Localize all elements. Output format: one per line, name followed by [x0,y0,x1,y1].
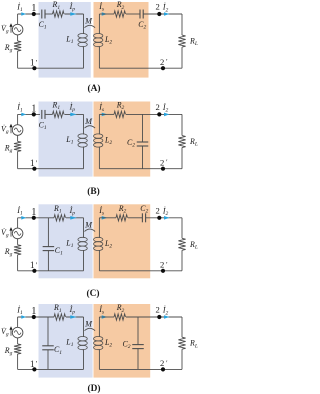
svg-text:İ2: İ2 [162,207,169,218]
capacitor C1 shunt (D) [47,317,49,346]
voltage source Vg (C) [17,218,19,228]
capacitor C2 shunt (B) [142,114,144,142]
capacitor C1 series (B) [41,110,43,119]
secondary shaded region (A) [94,2,149,78]
bottom wire secondary (A) [99,67,182,69]
load resistor RL (A) [181,14,183,35]
wire: top left (C) [18,217,54,219]
svg-text:2: 2 [156,205,160,215]
node 2 (C) [157,216,161,220]
svg-text:İ1: İ1 [16,103,23,114]
svg-text:2: 2 [156,2,160,12]
svg-text:′: ′ [36,58,38,67]
wire R1-L1 (C) [66,217,84,219]
svg-text:M: M [84,117,93,126]
svg-text:1: 1 [31,306,36,317]
svg-text:1: 1 [31,104,36,115]
node 1 (C) [32,216,36,220]
load resistor RL (D) [181,317,183,337]
svg-text:M: M [84,17,93,26]
wire R2-C2 (C) [128,217,142,219]
node 2 (D) [157,315,161,319]
node 2 (B) [157,112,161,116]
voltage source Vg (D) [17,317,19,327]
node 1&#39; (D) [32,367,36,371]
primary shaded region (D) [39,304,93,378]
svg-text:RL: RL [189,240,198,251]
wire R2-C2 (A) [126,13,140,15]
node 2&#39; (B) [161,167,165,171]
svg-text:2: 2 [160,158,164,168]
secondary shaded region (B) [94,102,151,177]
bottom wire primary (B) [18,168,84,170]
resistor R1 (C) [54,215,65,221]
inductor L2 (D) [98,317,100,337]
svg-text:V̇g: V̇g [1,228,9,239]
source polarity arrow (C) [10,230,12,237]
svg-text:M: M [84,320,93,329]
svg-text:Rg: Rg [4,43,13,54]
svg-text:(C): (C) [86,288,99,299]
svg-text:Rg: Rg [4,247,13,258]
resistor R2 (B) [114,111,125,117]
svg-text:İ1: İ1 [16,305,23,316]
svg-text:′: ′ [36,359,38,368]
resistor R2 (D) [114,314,125,320]
node 2&#39; (D) [161,367,165,371]
svg-text:İ1: İ1 [16,2,23,13]
svg-text:V̇g: V̇g [1,327,9,338]
bottom wire secondary (D) [99,368,182,370]
svg-text:RL: RL [189,137,198,148]
wire C1-R1 (A) [45,13,53,15]
svg-text:(A): (A) [87,83,100,94]
capacitor C1 shunt (C) [47,218,49,247]
node 1&#39; (C) [32,269,36,273]
resistor R2 (A) [114,11,125,17]
wire C2-node2 (C) [146,217,182,219]
node 2&#39; (C) [161,269,165,273]
inductor L1 (B) [83,114,85,134]
wire R1-L1 (B) [65,113,84,115]
svg-text:2: 2 [156,305,160,315]
wire: top left (D) [18,316,54,318]
source polarity arrow (D) [10,329,12,336]
svg-text:1: 1 [31,3,36,14]
svg-text:1: 1 [31,207,36,218]
svg-text:1: 1 [30,359,35,369]
svg-text:1: 1 [30,260,35,270]
secondary shaded region (C) [94,204,151,278]
svg-text:′: ′ [166,158,168,167]
source polarity arrow (B) [10,127,12,134]
svg-text:İ2: İ2 [162,103,169,114]
primary shaded region (C) [39,204,93,278]
inductor L1 (C) [83,218,85,238]
resistor R2 (C) [116,215,127,221]
node 1&#39; (A) [32,66,36,70]
inductor L1 (A) [83,14,85,34]
source polarity arrow (A) [10,26,12,33]
inductor L2 (C) [98,218,100,238]
capacitor C2 series (A) [139,10,141,19]
wire R2-node2 (B) [126,113,182,115]
resistor R1 (B) [53,111,64,117]
capacitor C2 shunt (D) [137,317,139,345]
svg-text:İ2: İ2 [162,306,169,317]
node 1 (B) [32,112,36,116]
svg-text:RL: RL [189,37,198,48]
svg-text:M: M [84,220,93,229]
svg-text:V̇g: V̇g [1,24,9,35]
bottom wire primary (A) [18,67,84,69]
bottom wire primary (D) [18,368,84,370]
wire R2-node2 (D) [126,316,182,318]
svg-text:Rg: Rg [4,143,13,154]
node 1 (A) [32,12,36,16]
wire C1-R1 (B) [45,113,53,115]
wire L2-R2 (D) [99,316,114,318]
resistor Rg (A) [17,35,19,41]
inductor L2 (B) [98,114,100,134]
wire L2-R2 (A) [99,13,114,15]
svg-text:V̇g: V̇g [1,124,9,135]
wire L2-R2 (B) [99,113,114,115]
svg-text:2: 2 [160,358,164,368]
capacitor C1 series (A) [41,10,43,19]
node 2 (A) [157,12,161,16]
svg-text:(B): (B) [87,186,100,197]
capacitor C2 series (C) [141,213,143,222]
secondary shaded region (D) [94,304,151,378]
bottom wire secondary (C) [99,270,182,272]
wire R1-L1 (D) [66,316,84,318]
bottom wire secondary (B) [99,168,182,170]
load resistor RL (B) [181,114,183,135]
wire C2-node2 (A) [143,13,182,15]
voltage source Vg (B) [17,114,19,124]
wire: top left (B) [18,113,40,115]
node 1 (D) [32,315,36,319]
svg-text:′: ′ [36,158,38,167]
svg-text:′: ′ [166,57,168,66]
svg-text:1: 1 [30,58,35,68]
svg-text:Rg: Rg [4,346,13,357]
svg-text:İ1: İ1 [16,206,23,217]
wire R1-L1 (A) [65,13,84,15]
resistor Rg (B) [17,135,19,141]
svg-text:(D): (D) [87,383,100,394]
primary shaded region (A) [39,2,91,78]
node 1&#39; (B) [32,167,36,171]
svg-text:İ2: İ2 [162,3,169,14]
wire L2-R2 (C) [99,217,116,219]
bottom wire primary (C) [18,270,84,272]
resistor R1 (A) [53,11,64,17]
inductor L2 (A) [98,14,100,34]
voltage source Vg (A) [17,14,19,24]
resistor Rg (D) [17,338,19,344]
inductor L1 (D) [83,317,85,337]
svg-text:′: ′ [36,260,38,269]
node 2&#39; (A) [161,66,165,70]
load resistor RL (C) [181,218,183,239]
svg-text:′: ′ [166,358,168,367]
svg-text:2: 2 [160,57,164,67]
svg-text:2: 2 [160,260,164,270]
svg-text:2: 2 [156,102,160,112]
primary shaded region (B) [39,102,93,177]
wire: top left (A) [18,13,40,15]
resistor Rg (C) [17,239,19,245]
svg-text:′: ′ [166,260,168,269]
svg-text:RL: RL [189,339,198,350]
svg-text:1: 1 [30,158,35,168]
resistor R1 (D) [54,314,65,320]
